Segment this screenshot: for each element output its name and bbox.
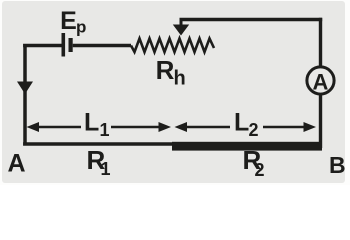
wire: wiper to top-right corner	[180, 18, 323, 21]
svg-text:p: p	[76, 18, 86, 37]
svg-text:1: 1	[101, 159, 111, 179]
wire: bottom thin wire A to midpoint (R1 section)	[23, 142, 173, 146]
dimension L2: right arrowhead	[304, 122, 317, 132]
ammeter A	[307, 67, 334, 94]
svg-text:h: h	[174, 68, 186, 90]
current arrow on left wire (pointing down)	[17, 82, 33, 95]
figure background panel	[0, 0, 350, 185]
dimension L2: right line segment	[263, 126, 305, 129]
battery Ep: short plate	[68, 38, 72, 52]
wire: battery to rheostat	[73, 44, 131, 47]
dimension L1: right arrowhead	[159, 122, 172, 132]
wire: top-left horizontal, left wire to battery	[23, 44, 61, 47]
svg-text:L: L	[84, 109, 99, 137]
rheostat wiper arrow (pointing down onto zigzag)	[180, 18, 183, 27]
rheostat Rh zigzag	[131, 39, 214, 53]
dimension L1: left line segment	[37, 126, 81, 129]
resistance wire R2: thick bar	[172, 142, 322, 151]
dimension L2: left arrowhead	[175, 122, 188, 132]
svg-text:E: E	[60, 7, 77, 35]
svg-text:2: 2	[249, 120, 259, 140]
wire: right vertical, corner down to ammeter	[319, 18, 322, 67]
dimension L2: left line segment	[185, 126, 230, 129]
svg-text:B: B	[329, 152, 346, 178]
wire: left vertical (top wire to bottom wire)	[23, 44, 27, 146]
wire: ammeter down to bottom-right corner	[319, 94, 322, 148]
svg-text:L: L	[234, 109, 249, 137]
svg-text:1: 1	[100, 120, 110, 140]
svg-text:A: A	[8, 150, 26, 178]
svg-text:R: R	[156, 55, 175, 85]
svg-text:A: A	[313, 70, 329, 95]
dimension L1: left arrowhead	[27, 122, 40, 132]
dimension L1: right line segment	[111, 126, 160, 129]
svg-text:2: 2	[255, 160, 265, 180]
battery Ep: long plate	[61, 33, 65, 57]
